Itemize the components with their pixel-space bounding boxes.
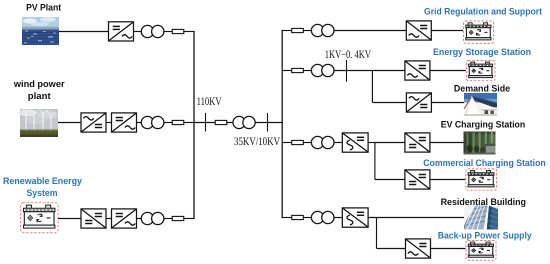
svg-text:Residential Building: Residential Building [441, 196, 527, 207]
AC/DC converter (residential main) [342, 208, 368, 227]
svg-text:110KV: 110KV [197, 96, 223, 108]
110KV bus (left vertical bus) [193, 31, 195, 219]
wire bus to breaker (branch 4) [282, 217, 292, 219]
DC/AC converter (storage) [112, 209, 137, 228]
wire converter to battery [431, 248, 466, 250]
svg-text:Commercial Charging Station: Commercial Charging Station [423, 157, 546, 168]
wire transformer to converter [334, 30, 406, 32]
wind power plant photo [19, 108, 58, 137]
breaker (storage feeder) [172, 216, 184, 220]
svg-text:Demand Side: Demand Side [454, 82, 510, 93]
node tick 110KV side [205, 113, 207, 132]
35KV/10KV bus (right vertical bus) [281, 30, 283, 218]
wire converter to transformer T2 [137, 122, 143, 124]
wire PV photo to converter [59, 31, 109, 33]
tie transformer 110KV/35KV [233, 116, 255, 128]
svg-text:System: System [27, 187, 58, 198]
wire breaker to transformer [303, 70, 312, 72]
node split branch 4 [376, 218, 378, 249]
battery storage icon (grid regulation) [464, 21, 494, 43]
wire transformer to split node [334, 70, 372, 72]
node split branch 2 [371, 71, 373, 103]
node tick 0.4KV [346, 60, 348, 82]
svg-text:wind power: wind power [13, 78, 65, 89]
house photo (demand side) [464, 93, 498, 116]
DC/DC converter (commercial charging) [405, 170, 430, 189]
AC/DC converter (demand side) [406, 93, 431, 112]
wire breaker to 110KV bus [184, 122, 195, 124]
AC/DC converter (EV main) [342, 133, 368, 152]
wire breaker to transformer [303, 217, 312, 219]
wire transformer to breaker [164, 122, 172, 124]
DC/AC converter (PV) [109, 22, 134, 41]
wire split to converter (demand side) [372, 102, 406, 104]
svg-text:plant: plant [28, 90, 51, 101]
wire tie transformer to 35KV bus [255, 122, 282, 124]
breaker (grid support feeder) [292, 28, 304, 32]
wire converter to EV photo [430, 142, 464, 144]
wire converter to battery [431, 30, 463, 32]
EV charging station photo [464, 132, 496, 155]
residential building photo [464, 206, 498, 230]
transformer T6 (EV feeder) [311, 136, 334, 148]
transformer T1 (PV) [141, 25, 164, 37]
battery storage icon (commercial charging) [466, 169, 497, 190]
wire converter to battery [430, 179, 465, 181]
breaker (tie line) [215, 120, 227, 124]
wire bus to breaker (branch 1) [282, 30, 292, 32]
wire converter to battery [430, 70, 466, 72]
wire between wind converters [106, 122, 112, 124]
battery storage icon (energy storage station) [466, 60, 495, 80]
transformer T3 (storage) [141, 212, 164, 224]
wire battery to converter [58, 218, 81, 220]
svg-text:Back-up Power Supply: Back-up Power Supply [438, 229, 533, 240]
svg-text:Grid Regulation and Support: Grid Regulation and Support [424, 6, 542, 17]
svg-text:PV Plant: PV Plant [26, 2, 61, 13]
svg-text:35KV/10KV: 35KV/10KV [234, 136, 281, 148]
battery storage icon (Renewable Energy System) [21, 203, 58, 233]
DC/AC converter (wind) [112, 113, 137, 132]
AC/DC converter (wind) [81, 113, 106, 132]
wire breaker to transformer [303, 30, 312, 32]
AC/DC converter (energy storage) [405, 61, 430, 80]
breaker (PV feeder) [172, 29, 184, 33]
PV plant photo [22, 17, 59, 45]
svg-text:Renewable Energy: Renewable Energy [3, 175, 83, 186]
wire breaker to 110KV bus [184, 218, 195, 220]
AC/DC converter (grid support) [406, 21, 431, 40]
wire wind photo to converter [58, 122, 81, 124]
wire bus to breaker (branch 3) [282, 142, 292, 144]
wire between storage converters [106, 218, 112, 220]
wire split to converter (back-up) [377, 248, 406, 250]
wire transformer to breaker [164, 218, 172, 220]
AC/DC converter (back-up supply) [406, 239, 431, 258]
wire split to converter (energy storage) [372, 70, 405, 72]
wire split to DC/DC converter (commercial) [375, 179, 405, 181]
wire transformer to converter [334, 142, 342, 144]
wire split to DC/DC converter (EV) [375, 142, 405, 144]
battery storage icon (back-up supply) [466, 240, 496, 260]
wire converter to split node [368, 142, 375, 144]
node split branch 3 [374, 143, 376, 180]
breaker (wind feeder) [172, 120, 184, 124]
wire bus to breaker (branch 2) [282, 70, 292, 72]
wire transformer to converter [334, 217, 342, 219]
wire breaker to transformer [303, 142, 312, 144]
transformer T4 (grid support) [311, 24, 334, 36]
breaker (EV feeder) [292, 140, 304, 144]
wire converter to building [368, 217, 464, 219]
breaker (residential feeder) [292, 215, 304, 219]
breaker (storage/demand feeder) [292, 68, 304, 72]
wire converter to house [431, 102, 464, 104]
wire 110KV bus to tie transformer [194, 122, 233, 124]
wire breaker to 110KV bus [184, 31, 195, 33]
wire converter to transformer T3 [137, 218, 143, 220]
transformer T2 (wind) [141, 116, 164, 128]
wire converter to transformer T1 [134, 31, 143, 33]
node tick 35KV side [267, 113, 269, 132]
svg-text:Energy Storage Station: Energy Storage Station [433, 46, 531, 57]
DC/DC converter (EV charging) [405, 133, 430, 152]
svg-text:EV Charging Station: EV Charging Station [441, 118, 526, 129]
transformer T7 (residential) [311, 211, 334, 223]
DC/DC converter (storage) [81, 209, 106, 228]
wire transformer to breaker [164, 31, 172, 33]
svg-text:1KV−0. 4KV: 1KV−0. 4KV [325, 49, 372, 61]
transformer T5 (storage/demand) [311, 64, 334, 76]
